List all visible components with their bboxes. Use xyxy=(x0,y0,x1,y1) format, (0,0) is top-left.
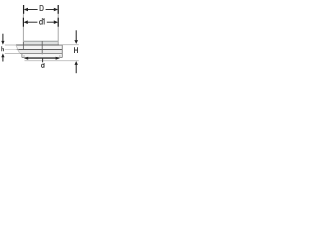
dimension d left arrowhead xyxy=(24,57,28,60)
centerline xyxy=(41,41,43,54)
part left slant edge xyxy=(16,45,20,54)
dimension D line xyxy=(28,9,38,11)
part right edge xyxy=(61,45,63,58)
part top band fill (gasket zone) xyxy=(23,41,58,45)
dimension d line xyxy=(27,57,56,59)
dimension d1 right bar xyxy=(57,18,59,27)
dimension D right bar xyxy=(57,5,59,14)
dimension h top arrowhead xyxy=(1,41,4,45)
part inner wall right (bottom opening) xyxy=(59,55,61,58)
dimension h bottom arrow stem xyxy=(2,57,4,62)
H extension top xyxy=(59,44,79,46)
dimension H label xyxy=(74,47,78,53)
dimension D left arrowhead xyxy=(24,8,28,12)
H extension bottom xyxy=(25,60,79,62)
part body band 2 fill xyxy=(16,45,62,50)
part top edge xyxy=(16,44,62,46)
dimension d1 left bar xyxy=(22,18,24,27)
dimension h top arrow stem xyxy=(2,34,4,42)
dimension H bottom arrow stem xyxy=(75,65,77,74)
dimension H top arrowhead xyxy=(74,40,78,44)
dimension D label xyxy=(40,5,44,11)
extension line right (D/d1) xyxy=(57,5,59,45)
part inner wall left (bottom opening) xyxy=(23,55,25,58)
part rim left end xyxy=(21,54,23,58)
h extension line y49.5 xyxy=(5,49,17,51)
dimension h label xyxy=(1,46,4,51)
h extension line y45 xyxy=(5,44,16,46)
background xyxy=(0,0,80,80)
part body band 3 fill xyxy=(17,50,63,54)
dimension D left bar xyxy=(23,5,25,14)
dimension d leader tick xyxy=(42,58,44,62)
part flange bottom line xyxy=(20,53,63,55)
part mid line xyxy=(17,49,63,51)
dimension d label xyxy=(41,63,44,68)
dimension d1 label xyxy=(39,18,44,25)
dimension d right arrowhead xyxy=(56,57,60,60)
extension line left (D/d1) xyxy=(22,5,24,45)
dimension d1 left arrowhead xyxy=(24,20,28,24)
dimension d1 line xyxy=(28,21,38,23)
part rim bottom line xyxy=(22,57,62,59)
dimension H top arrow stem xyxy=(75,30,77,40)
h extension line y53.5 xyxy=(5,53,20,55)
part inner lip edge left xyxy=(22,42,24,50)
dimension D right arrowhead xyxy=(54,8,58,12)
top band top line xyxy=(23,40,58,42)
dimension d1 right arrowhead xyxy=(54,20,58,24)
dimension H bottom arrowhead xyxy=(75,61,78,65)
dimension h bottom arrowhead xyxy=(1,53,4,57)
part rim band fill xyxy=(22,54,62,58)
